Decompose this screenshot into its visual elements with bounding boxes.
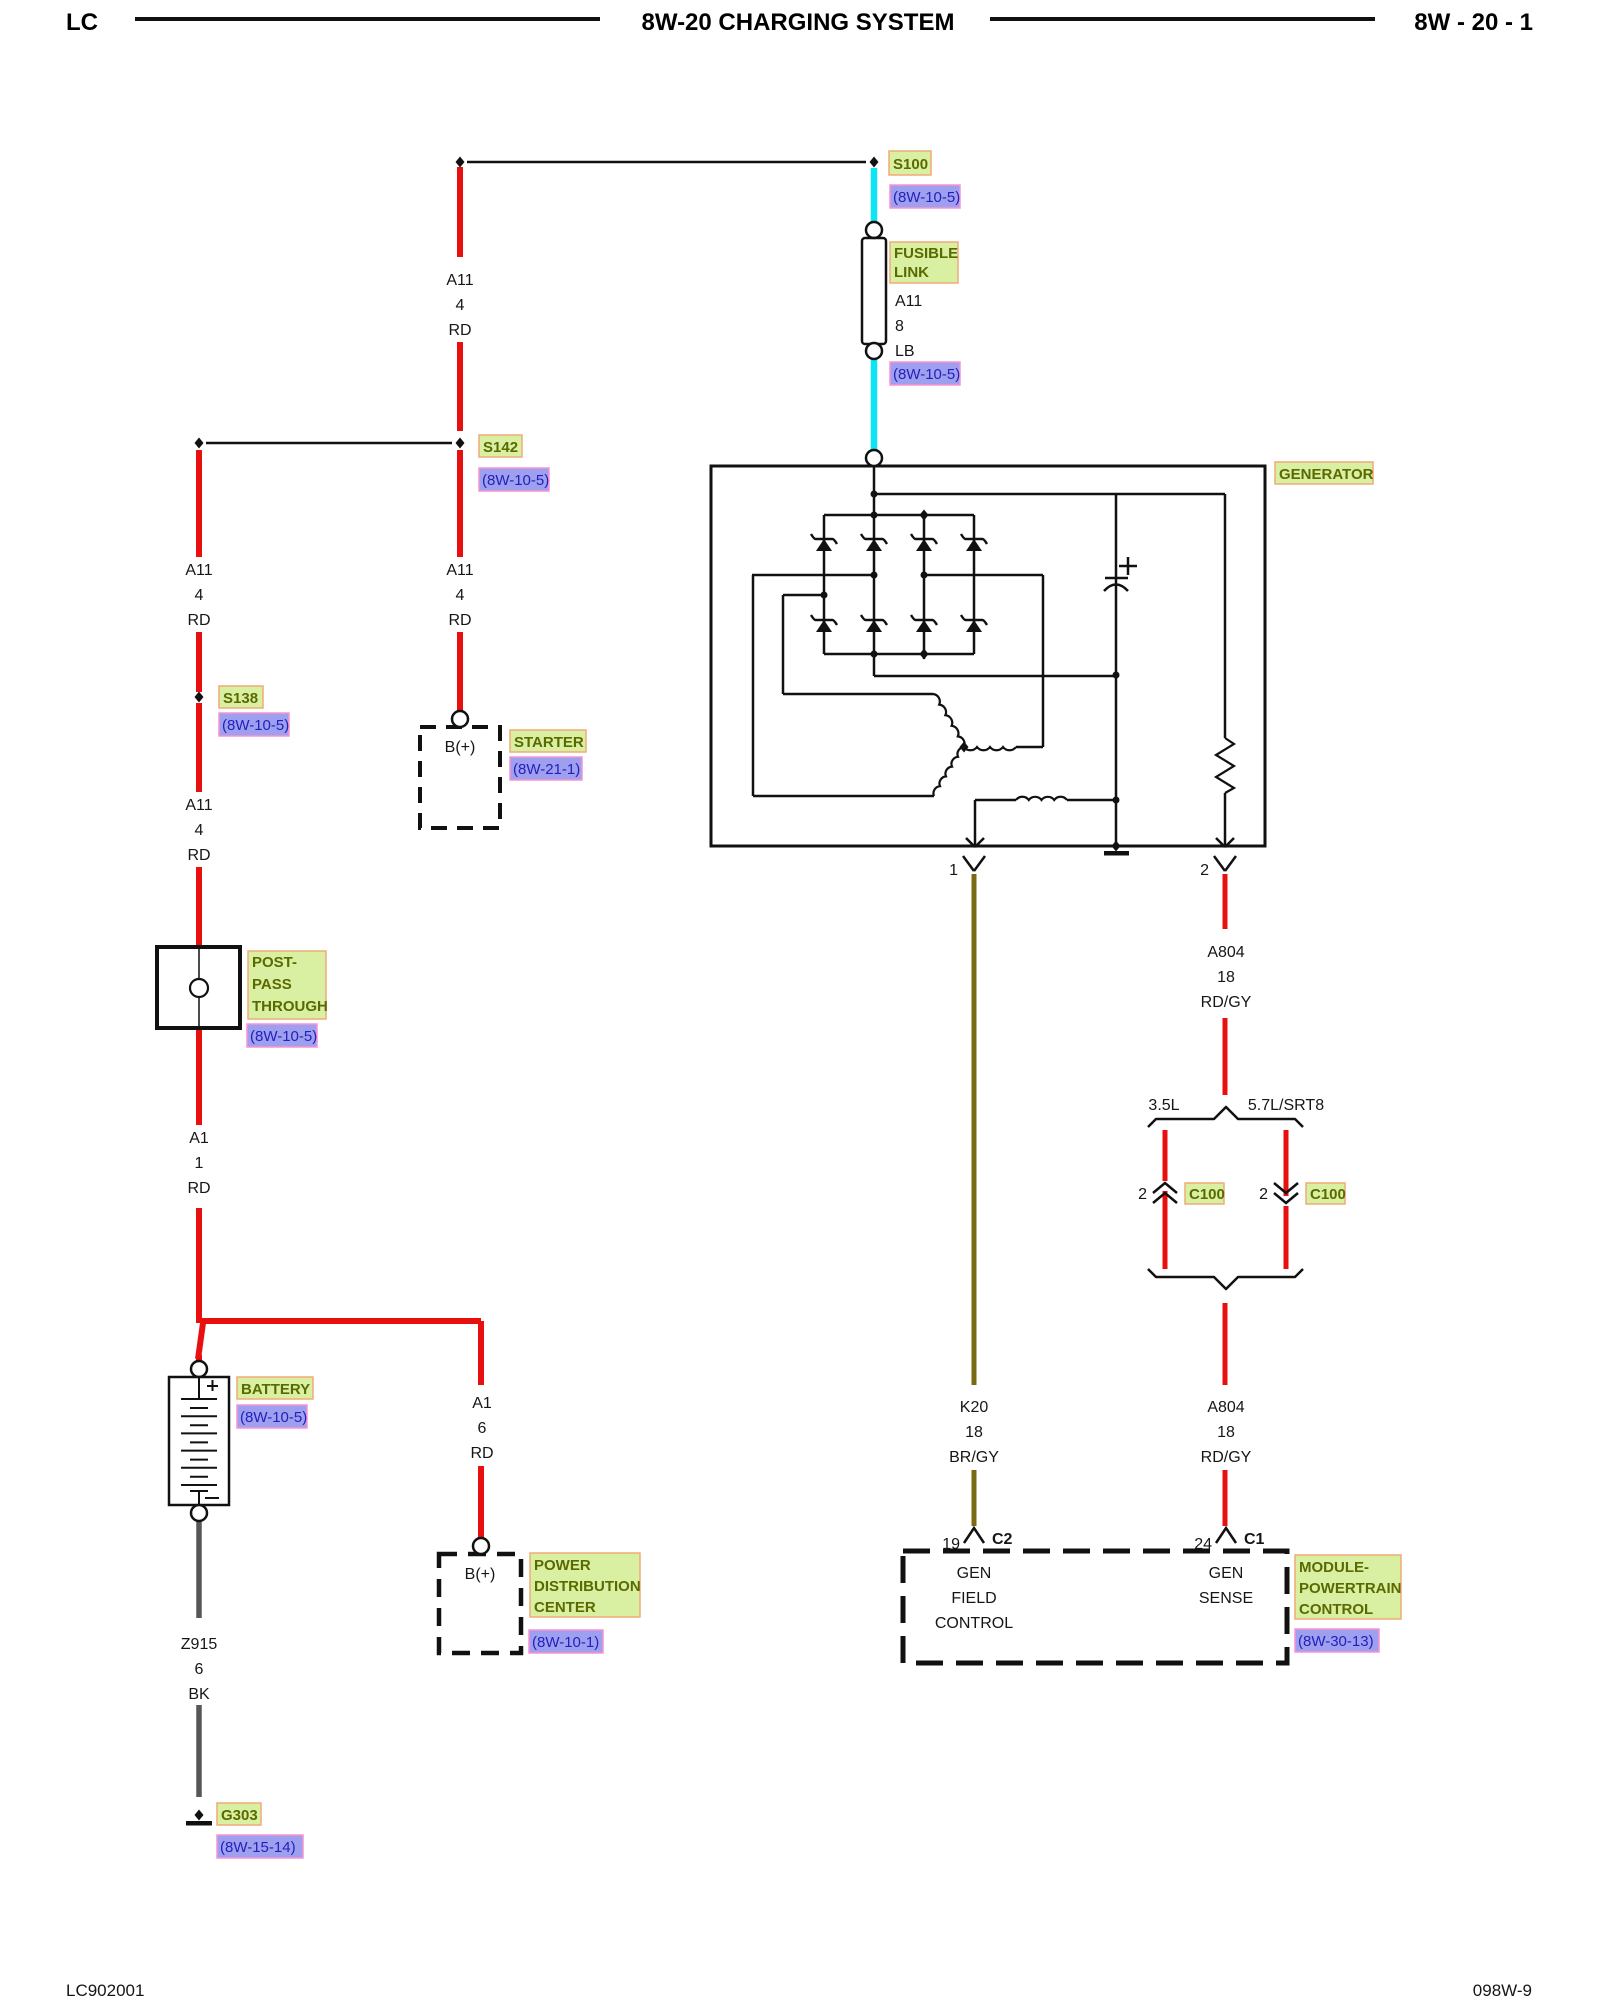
svg-text:4: 4	[195, 587, 204, 604]
svg-text:1: 1	[195, 1155, 204, 1172]
svg-text:8W-20 CHARGING SYSTEM: 8W-20 CHARGING SYSTEM	[642, 9, 955, 36]
svg-text:(8W-30-13): (8W-30-13)	[1298, 1633, 1374, 1650]
svg-text:1: 1	[949, 862, 958, 879]
svg-text:A1: A1	[472, 1395, 492, 1412]
svg-text:8W - 20 - 1: 8W - 20 - 1	[1414, 9, 1533, 36]
svg-text:4: 4	[195, 822, 204, 839]
svg-text:LC902001: LC902001	[66, 1981, 144, 2000]
svg-text:RD: RD	[187, 612, 210, 629]
svg-text:GENERATOR: GENERATOR	[1279, 466, 1374, 483]
svg-text:18: 18	[965, 1424, 983, 1441]
svg-text:FIELD: FIELD	[951, 1590, 996, 1607]
svg-text:A1: A1	[189, 1130, 209, 1147]
svg-text:C2: C2	[992, 1531, 1013, 1548]
svg-text:RD/GY: RD/GY	[1201, 1449, 1252, 1466]
svg-text:(8W-10-5): (8W-10-5)	[250, 1028, 317, 1045]
svg-text:A804: A804	[1207, 944, 1244, 961]
svg-text:A11: A11	[185, 562, 212, 579]
svg-text:4: 4	[456, 587, 465, 604]
svg-text:MODULE-: MODULE-	[1299, 1559, 1369, 1576]
svg-text:Z915: Z915	[181, 1636, 218, 1653]
svg-text:(8W-10-5): (8W-10-5)	[240, 1409, 307, 1426]
svg-text:POWERTRAIN: POWERTRAIN	[1299, 1580, 1402, 1597]
svg-text:SENSE: SENSE	[1199, 1590, 1253, 1607]
svg-text:098W-9: 098W-9	[1473, 1981, 1532, 2000]
svg-text:PASS: PASS	[252, 976, 292, 993]
svg-text:G303: G303	[221, 1807, 258, 1824]
svg-text:RD/GY: RD/GY	[1201, 994, 1252, 1011]
svg-text:CONTROL: CONTROL	[935, 1615, 1013, 1632]
svg-text:POST-: POST-	[252, 954, 297, 971]
svg-text:K20: K20	[960, 1399, 989, 1416]
svg-text:STARTER: STARTER	[514, 734, 584, 751]
svg-text:BATTERY: BATTERY	[241, 1381, 310, 1398]
svg-text:4: 4	[456, 297, 465, 314]
svg-text:2: 2	[1200, 862, 1209, 879]
svg-text:RD: RD	[187, 847, 210, 864]
svg-text:(8W-10-5): (8W-10-5)	[893, 366, 960, 383]
svg-text:BR/GY: BR/GY	[949, 1449, 999, 1466]
svg-text:C100: C100	[1189, 1186, 1225, 1203]
svg-text:3.5L: 3.5L	[1148, 1097, 1179, 1114]
svg-text:(8W-21-1): (8W-21-1)	[513, 761, 580, 778]
svg-text:LINK: LINK	[894, 264, 929, 281]
svg-text:(8W-10-5): (8W-10-5)	[482, 472, 549, 489]
svg-text:5.7L/SRT8: 5.7L/SRT8	[1248, 1097, 1324, 1114]
svg-text:18: 18	[1217, 1424, 1235, 1441]
svg-text:C1: C1	[1244, 1531, 1265, 1548]
svg-text:LC: LC	[66, 9, 98, 36]
svg-text:A11: A11	[185, 797, 212, 814]
svg-text:(8W-10-5): (8W-10-5)	[222, 717, 289, 734]
svg-text:B(+): B(+)	[465, 1566, 496, 1583]
svg-text:THROUGH: THROUGH	[252, 998, 328, 1015]
svg-text:2: 2	[1138, 1186, 1147, 1203]
svg-text:GEN: GEN	[957, 1565, 992, 1582]
svg-text:A11: A11	[446, 272, 473, 289]
svg-text:C100: C100	[1310, 1186, 1346, 1203]
svg-text:BK: BK	[188, 1686, 210, 1703]
svg-text:B(+): B(+)	[445, 739, 476, 756]
svg-text:8: 8	[895, 318, 904, 335]
svg-text:CENTER: CENTER	[534, 1599, 596, 1616]
svg-text:LB: LB	[895, 343, 915, 360]
svg-text:S142: S142	[483, 439, 518, 456]
svg-text:RD: RD	[448, 322, 471, 339]
svg-text:(8W-10-5): (8W-10-5)	[893, 189, 960, 206]
svg-text:6: 6	[195, 1661, 204, 1678]
svg-text:RD: RD	[470, 1445, 493, 1462]
svg-text:A11: A11	[895, 293, 922, 310]
svg-text:RD: RD	[448, 612, 471, 629]
svg-text:S138: S138	[223, 690, 258, 707]
svg-text:DISTRIBUTION: DISTRIBUTION	[534, 1578, 641, 1595]
svg-text:GEN: GEN	[1209, 1565, 1244, 1582]
svg-text:A11: A11	[446, 562, 473, 579]
svg-text:POWER: POWER	[534, 1557, 591, 1574]
svg-text:(8W-15-14): (8W-15-14)	[220, 1839, 296, 1856]
svg-text:A804: A804	[1207, 1399, 1244, 1416]
svg-text:18: 18	[1217, 969, 1235, 986]
svg-text:CONTROL: CONTROL	[1299, 1601, 1373, 1618]
svg-text:FUSIBLE: FUSIBLE	[894, 245, 958, 262]
svg-text:2: 2	[1259, 1186, 1268, 1203]
svg-text:(8W-10-1): (8W-10-1)	[532, 1634, 599, 1651]
svg-text:6: 6	[478, 1420, 487, 1437]
svg-text:RD: RD	[187, 1180, 210, 1197]
svg-text:S100: S100	[893, 156, 928, 173]
